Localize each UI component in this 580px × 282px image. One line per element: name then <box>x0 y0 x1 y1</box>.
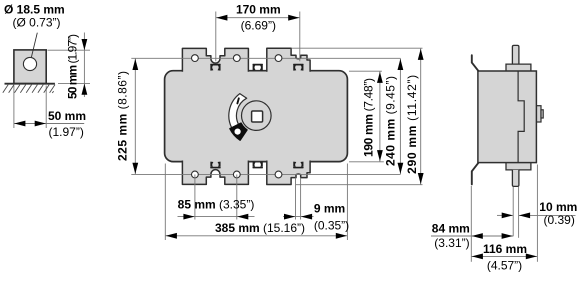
svg-text:(4.57”): (4.57”) <box>487 258 522 272</box>
svg-text:Ø 18.5 mm: Ø 18.5 mm <box>4 2 65 16</box>
svg-text:385 mm (15.16”): 385 mm (15.16”) <box>215 221 305 235</box>
svg-text:(1.97”): (1.97”) <box>49 125 84 139</box>
svg-text:(0.35”): (0.35”) <box>314 218 349 232</box>
svg-text:9 mm: 9 mm <box>314 202 345 216</box>
svg-text:(3.31”): (3.31”) <box>434 236 469 250</box>
svg-text:(0.39): (0.39) <box>544 213 575 227</box>
svg-text:(Ø 0.73”): (Ø 0.73”) <box>13 15 61 29</box>
svg-text:50 mm (1.97”): 50 mm (1.97”) <box>66 34 80 99</box>
svg-text:84 mm: 84 mm <box>432 221 470 235</box>
svg-text:225 mm (8.86”): 225 mm (8.86”) <box>116 71 130 161</box>
svg-text:50 mm: 50 mm <box>48 109 86 123</box>
svg-text:170 mm: 170 mm <box>236 3 281 17</box>
svg-text:116 mm: 116 mm <box>483 242 527 256</box>
svg-text:10 mm: 10 mm <box>539 200 577 214</box>
svg-text:85 mm (3.35”): 85 mm (3.35”) <box>178 198 255 212</box>
svg-text:290 mm (11.42”): 290 mm (11.42”) <box>405 75 419 174</box>
svg-text:190 mm (7.48”): 190 mm (7.48”) <box>362 78 376 157</box>
svg-text:240 mm (9.45”): 240 mm (9.45”) <box>383 76 397 166</box>
svg-text:(6.69”): (6.69”) <box>241 19 276 33</box>
